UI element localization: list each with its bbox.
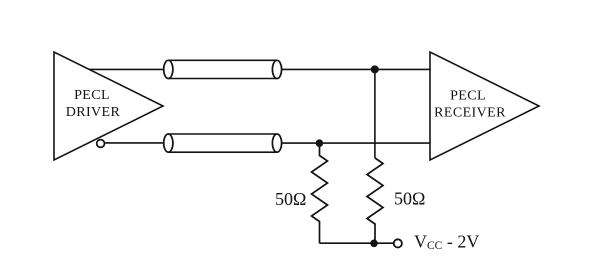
svg-text:50Ω: 50Ω xyxy=(394,189,425,209)
transmission line TL1 (top cable) xyxy=(164,60,282,78)
resistor R2 (right 50 ohm) xyxy=(367,158,383,243)
wire: bottom termination rail xyxy=(320,242,394,244)
transmission line TL2 (bottom cable) xyxy=(164,134,282,152)
receiver U2 (PECL RECEIVER triangle) xyxy=(430,52,539,160)
driver U1 (PECL DRIVER triangle) xyxy=(54,52,163,160)
terminal (open circle) to Vcc-2V supply xyxy=(394,239,402,247)
svg-text:50Ω: 50Ω xyxy=(275,189,306,209)
junction dot on top wire (node to R2) xyxy=(371,65,379,73)
driver U1 label "PECL DRIVER" xyxy=(66,88,121,120)
svg-text:DRIVER: DRIVER xyxy=(66,105,121,120)
resistor R1 (left 50 ohm) xyxy=(312,143,328,243)
wire: driver inverted output (bubble) to bottom transmission line xyxy=(105,142,164,144)
svg-text:PECL: PECL xyxy=(450,89,486,104)
wire: top node down to resistor R2 (crosses bottom wire, no junction) xyxy=(374,69,376,158)
wire: driver true output to top transmission line xyxy=(89,68,164,70)
inversion bubble on driver inverted output xyxy=(97,140,105,148)
wire: bottom transmission line to receiver inverting input xyxy=(282,142,430,144)
wire: top transmission line to receiver input xyxy=(282,68,430,70)
junction dot on bottom wire (node to R1) xyxy=(316,139,324,147)
receiver U2 label "PECL RECEIVER" xyxy=(434,89,506,121)
svg-text:PECL: PECL xyxy=(74,88,110,103)
svg-text:VCC - 2V: VCC - 2V xyxy=(414,232,479,253)
svg-text:RECEIVER: RECEIVER xyxy=(434,106,506,121)
junction dot on termination rail xyxy=(370,240,378,248)
